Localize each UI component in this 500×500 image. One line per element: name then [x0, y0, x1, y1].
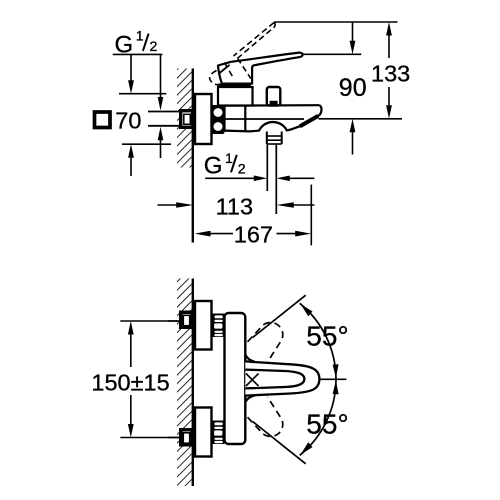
cartridge joint band	[218, 84, 251, 88]
svg-text:1: 1	[225, 151, 233, 167]
svg-text:90: 90	[339, 74, 367, 102]
dimension 113	[158, 194, 315, 220]
lever handle (solid, side view)	[218, 53, 303, 84]
faucet body (side view)	[218, 105, 320, 131]
svg-text:55°: 55°	[306, 409, 348, 440]
svg-text:55°: 55°	[306, 320, 348, 351]
shower outlet pipe (also G1/2 extension lines)	[267, 144, 276, 214]
svg-text:2: 2	[238, 162, 246, 178]
svg-text:70: 70	[115, 108, 141, 134]
handle (solid, plan view)	[245, 355, 319, 402]
upper angle arc	[300, 303, 339, 379]
lower union pipe stub	[168, 437, 179, 439]
swing angle line upper	[253, 295, 306, 337]
lower escutcheon (plan view)	[195, 408, 212, 457]
lever raised position (dashed)	[210, 23, 276, 86]
upper union pipe stub	[168, 320, 179, 322]
upper union square (plan view)	[181, 312, 193, 327]
dimension 167	[195, 185, 312, 248]
wall hatching (side view)	[177, 69, 192, 168]
upper union nut (plan view)	[213, 314, 225, 338]
svg-text:150±15: 150±15	[91, 370, 169, 396]
union nut (side view)	[212, 105, 225, 134]
lower union nut (plan view)	[213, 421, 225, 445]
aerator slash	[300, 116, 318, 127]
lower angle arc	[300, 379, 339, 455]
diverter knob	[267, 87, 281, 106]
pivot X mark	[246, 374, 259, 387]
escutcheon (side view)	[195, 94, 212, 144]
wall hatching (plan view)	[177, 279, 192, 487]
concealed union square (side view)	[181, 111, 193, 128]
handle dashed lobes (rotated positions)	[248, 322, 283, 436]
swing centerline	[320, 378, 346, 380]
upper escutcheon (plan view)	[195, 301, 212, 350]
spout tip	[318, 105, 322, 116]
wall surface line (side view)	[192, 69, 194, 243]
dimension G1/2 (top-left label)	[113, 28, 164, 158]
lower union square (plan view)	[181, 430, 193, 445]
svg-text:1: 1	[136, 28, 144, 44]
dimension 90	[302, 22, 367, 155]
cartridge tower	[218, 87, 253, 106]
svg-text:G: G	[204, 153, 223, 180]
svg-text:133: 133	[371, 60, 410, 86]
dimension 133	[274, 22, 410, 119]
dimension 150 +/- 15	[91, 321, 178, 438]
dimension G1/2 (shower outlet)	[204, 151, 315, 181]
faucet body bar (plan view)	[225, 313, 246, 444]
inlet pipe lines (side view)	[148, 112, 179, 126]
svg-text:2: 2	[150, 39, 158, 55]
svg-text:113: 113	[216, 194, 253, 220]
swing angle line lower	[253, 421, 306, 463]
shower outlet collar	[267, 132, 282, 145]
svg-text:167: 167	[234, 222, 273, 248]
wall surface line (plan view)	[192, 279, 194, 487]
dimension 70 (square symbol)	[95, 54, 172, 176]
